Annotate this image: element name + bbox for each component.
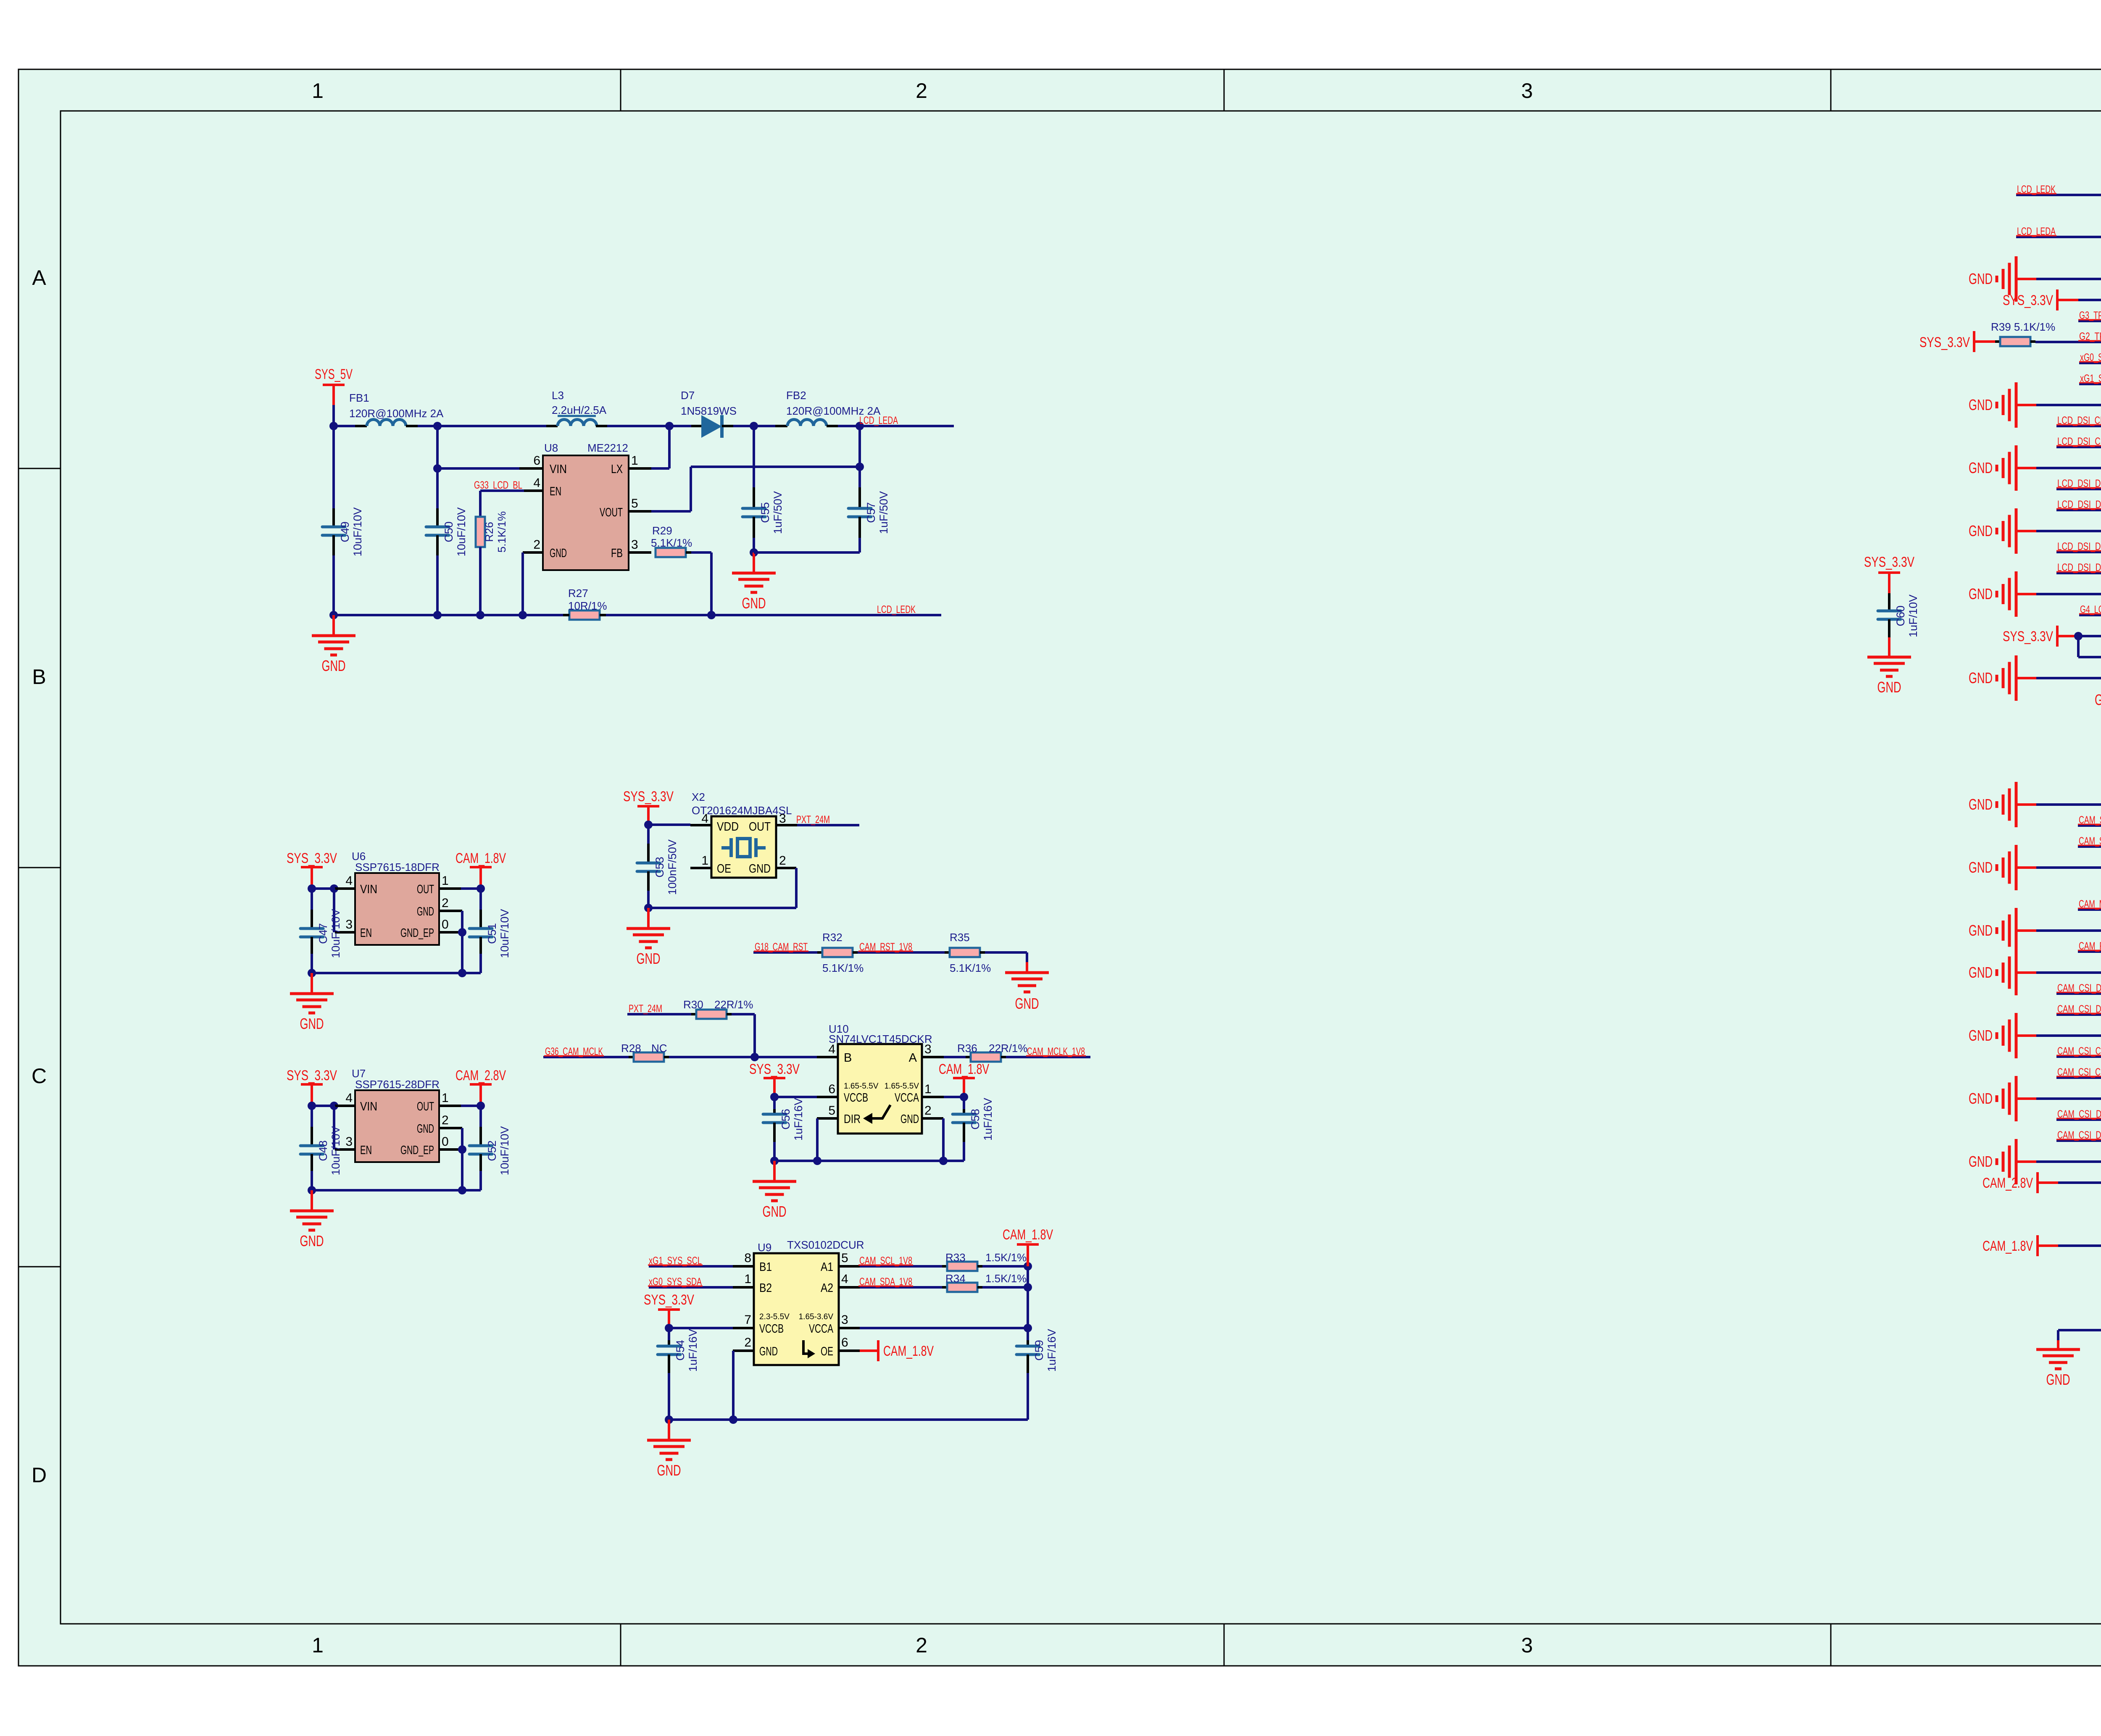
svg-text:GND: GND <box>1969 859 1993 876</box>
svg-text:3: 3 <box>345 918 353 931</box>
svg-text:3: 3 <box>841 1313 848 1327</box>
svg-text:C47: C47 <box>317 923 329 944</box>
svg-text:10uF/10V: 10uF/10V <box>498 1126 511 1175</box>
svg-text:3: 3 <box>1521 79 1533 103</box>
wire <box>669 1418 1028 1421</box>
capacitor C51 <box>469 889 511 973</box>
svg-text:2: 2 <box>779 854 786 868</box>
svg-text:VCCB: VCCB <box>759 1322 784 1336</box>
ground <box>647 1420 691 1479</box>
junction <box>644 821 653 829</box>
svg-text:1: 1 <box>924 1082 932 1096</box>
inductor L3 <box>552 389 607 426</box>
svg-text:OE: OE <box>717 862 731 876</box>
svg-text:10R/1%: 10R/1% <box>568 600 607 612</box>
wire <box>332 405 335 426</box>
svg-text:R39 5.1K/1%: R39 5.1K/1% <box>1991 321 2055 333</box>
svg-text:1.65-3.6V: 1.65-3.6V <box>799 1313 834 1321</box>
wire <box>437 425 558 427</box>
net CAM_SCL_1V8 <box>2078 814 2101 826</box>
resistor R29 <box>651 524 692 557</box>
wire <box>669 1327 733 1329</box>
pin stub <box>690 867 711 869</box>
junction <box>519 611 527 619</box>
wire <box>774 1160 964 1162</box>
svg-text:SN74LVC1T45DCKR: SN74LVC1T45DCKR <box>829 1033 932 1045</box>
capacitor C47 <box>300 889 342 973</box>
svg-text:U9: U9 <box>758 1241 771 1254</box>
svg-text:EN: EN <box>360 926 372 940</box>
net xG1_SYS_SCL <box>2079 373 2101 384</box>
ground <box>627 908 670 967</box>
svg-text:1.5K/1%: 1.5K/1% <box>985 1251 1027 1264</box>
svg-text:SYS_3.3V: SYS_3.3V <box>623 789 674 805</box>
capacitor C52 <box>469 1106 511 1190</box>
svg-text:SSP7615-28DFR: SSP7615-28DFR <box>355 1078 440 1091</box>
ferrite bead FB2 <box>786 389 881 426</box>
junction <box>1024 1283 1032 1291</box>
wire <box>817 1118 838 1161</box>
net xG0_SYS_SDA <box>648 1276 733 1288</box>
power flag CAM_1.8V <box>1983 1235 2101 1256</box>
ground <box>1969 571 2101 617</box>
wire <box>334 425 367 427</box>
net CAM_CSI_CK_N <box>2056 1066 2101 1078</box>
wire <box>439 1148 462 1151</box>
svg-text:4: 4 <box>533 476 540 490</box>
svg-text:10uF/10V: 10uF/10V <box>351 507 364 556</box>
svg-text:1.65-5.5V: 1.65-5.5V <box>844 1082 879 1091</box>
ground <box>290 1190 334 1249</box>
junction <box>750 1053 759 1061</box>
svg-text:A2: A2 <box>821 1281 833 1295</box>
wire <box>669 425 701 427</box>
svg-text:PXT_24M: PXT_24M <box>629 1003 662 1015</box>
net CAM_SDA_1V8 <box>2078 835 2101 847</box>
net LCD_LEDA <box>2016 226 2101 237</box>
svg-text:SYS_3.3V: SYS_3.3V <box>287 850 337 866</box>
net xG0_SYS_SDA <box>2079 352 2101 363</box>
ground <box>312 615 355 674</box>
svg-text:VIN: VIN <box>360 1100 377 1113</box>
junction <box>770 1093 779 1101</box>
junction <box>433 464 442 473</box>
svg-text:B: B <box>844 1051 852 1065</box>
svg-text:R36: R36 <box>957 1042 977 1055</box>
net CAM_CSI_D0_N <box>2056 1129 2101 1141</box>
svg-text:C49: C49 <box>339 521 351 542</box>
power flag SYS_5V <box>315 366 353 405</box>
wire <box>521 552 524 615</box>
resistor R30 <box>683 998 753 1019</box>
svg-text:VIN: VIN <box>550 463 567 476</box>
svg-text:8: 8 <box>744 1251 751 1265</box>
capacitor C53 <box>637 825 679 908</box>
svg-text:A: A <box>32 266 46 289</box>
svg-text:OE: OE <box>821 1345 833 1358</box>
svg-text:VCCB: VCCB <box>844 1091 868 1105</box>
junction <box>2074 632 2083 640</box>
svg-text:2: 2 <box>916 79 927 103</box>
ground <box>1969 445 2101 491</box>
svg-text:R30: R30 <box>683 998 703 1011</box>
regulator U6 <box>345 850 448 945</box>
junction <box>308 884 338 893</box>
net G2_TP_INT <box>2035 331 2101 342</box>
net LCD_DSI_D0_P <box>2056 562 2101 573</box>
svg-text:GND: GND <box>300 1015 324 1032</box>
capacitor C48 <box>300 1106 342 1190</box>
junction <box>665 422 674 430</box>
ground <box>1969 950 2101 995</box>
svg-text:22R/1%: 22R/1% <box>989 1042 1028 1055</box>
svg-text:GND_EP: GND_EP <box>400 926 434 940</box>
net CAM_CSI_CK_P <box>2056 1045 2101 1057</box>
svg-text:R35: R35 <box>950 931 970 944</box>
ground <box>1969 655 2101 701</box>
svg-text:1uF/16V: 1uF/16V <box>1045 1329 1058 1372</box>
ground <box>2095 677 2101 723</box>
svg-text:5.1K/1%: 5.1K/1% <box>495 511 508 552</box>
svg-text:3: 3 <box>1521 1633 1533 1657</box>
wire <box>461 932 463 973</box>
svg-text:4: 4 <box>828 1042 835 1056</box>
wire <box>406 425 437 427</box>
level shifter U9 <box>744 1239 864 1365</box>
ground <box>1969 256 2101 302</box>
wire <box>596 425 669 427</box>
svg-text:GND: GND <box>2095 691 2101 708</box>
resistor R33 <box>942 1251 1027 1271</box>
wire <box>774 1096 838 1098</box>
svg-text:R32: R32 <box>822 931 843 944</box>
svg-text:1.65-5.5V: 1.65-5.5V <box>885 1082 919 1091</box>
svg-text:EN: EN <box>550 485 561 498</box>
wire <box>732 1351 735 1420</box>
wire <box>686 552 711 615</box>
capacitor C49 <box>322 426 364 615</box>
power flag SYS_3.3V <box>2003 626 2101 647</box>
svg-text:D: D <box>32 1463 47 1487</box>
net LCD_LEDK <box>2016 184 2101 195</box>
svg-text:6: 6 <box>841 1336 848 1349</box>
power flag CAM_1.8V <box>455 850 506 889</box>
svg-text:G33_LCD_BL: G33_LCD_BL <box>474 479 522 491</box>
svg-text:GND: GND <box>637 950 661 967</box>
svg-text:C60: C60 <box>1894 605 1907 626</box>
svg-text:1.5K/1%: 1.5K/1% <box>985 1272 1027 1285</box>
junction <box>960 1093 968 1101</box>
resistor R34 <box>942 1272 1027 1292</box>
pin stubs U8 <box>523 468 651 552</box>
svg-text:GND: GND <box>417 1122 434 1136</box>
svg-text:3: 3 <box>924 1042 932 1056</box>
svg-text:C53: C53 <box>653 857 666 878</box>
svg-text:GND: GND <box>1969 459 1993 476</box>
svg-text:SYS_3.3V: SYS_3.3V <box>2003 292 2053 308</box>
wire <box>985 952 1027 973</box>
svg-text:SSP7615-18DFR: SSP7615-18DFR <box>355 861 440 873</box>
power flag CAM_2.8V <box>455 1068 506 1106</box>
svg-text:0: 0 <box>442 1135 449 1149</box>
svg-text:5: 5 <box>631 497 638 510</box>
svg-text:GND: GND <box>749 862 771 876</box>
wire <box>922 1118 943 1161</box>
crystal oscillator X2 <box>692 791 792 878</box>
svg-text:L3: L3 <box>552 389 564 402</box>
ground <box>1969 908 2101 953</box>
wire <box>2058 1330 2101 1349</box>
svg-text:1: 1 <box>701 854 708 868</box>
ground <box>1969 845 2101 890</box>
net LCD_DSI_D0_N <box>2056 541 2101 552</box>
power flag SYS_3.3V <box>1864 554 1914 593</box>
svg-text:GND: GND <box>1877 679 1901 696</box>
svg-text:B2: B2 <box>759 1281 772 1295</box>
svg-text:GND: GND <box>322 657 346 674</box>
svg-text:1: 1 <box>442 1091 449 1105</box>
svg-text:GND: GND <box>1969 1090 1993 1107</box>
net CAM_CSI_D0_P <box>2056 1108 2101 1120</box>
svg-text:B1: B1 <box>759 1260 772 1274</box>
svg-text:2: 2 <box>916 1633 927 1657</box>
svg-text:10uF/10V: 10uF/10V <box>498 909 511 958</box>
svg-text:SYS_3.3V: SYS_3.3V <box>2003 629 2053 644</box>
regulator U8 <box>533 442 638 570</box>
svg-text:FB: FB <box>611 547 623 560</box>
svg-text:OUT: OUT <box>417 883 434 896</box>
svg-text:5: 5 <box>828 1104 835 1118</box>
wire <box>754 551 860 554</box>
svg-text:5.1K/1%: 5.1K/1% <box>950 962 991 974</box>
net G36_CAM_MCLK <box>543 1046 629 1057</box>
svg-text:VDD: VDD <box>717 820 739 834</box>
wire <box>312 972 481 974</box>
svg-text:3: 3 <box>345 1135 353 1149</box>
svg-text:GND: GND <box>1969 585 1993 602</box>
junction <box>477 1102 485 1110</box>
junction <box>770 1157 948 1165</box>
svg-text:1uF/16V: 1uF/16V <box>792 1098 805 1141</box>
svg-text:VCCA: VCCA <box>895 1091 919 1105</box>
net PXT_24M <box>627 1003 691 1015</box>
resistor R39 <box>1991 321 2055 346</box>
svg-text:1: 1 <box>312 79 324 103</box>
wire <box>2078 636 2101 657</box>
svg-text:1uF/16V: 1uF/16V <box>982 1098 994 1141</box>
ground <box>1867 657 1911 696</box>
svg-text:D7: D7 <box>681 389 695 402</box>
svg-text:EN: EN <box>360 1144 372 1157</box>
ground <box>1969 1139 2101 1184</box>
capacitor C55 <box>742 426 784 552</box>
net LCD_DSI_D1_N <box>2056 478 2101 489</box>
net LCD_DSI_CK_P <box>2056 436 2101 447</box>
svg-text:X2: X2 <box>692 791 705 803</box>
junction <box>308 1186 466 1194</box>
svg-text:2.2uH/2.5A: 2.2uH/2.5A <box>552 404 607 416</box>
svg-text:NC: NC <box>651 1042 667 1055</box>
svg-text:2: 2 <box>442 1113 449 1127</box>
junction <box>308 1102 338 1110</box>
svg-text:GND: GND <box>1969 1153 1993 1170</box>
svg-text:1: 1 <box>312 1633 324 1657</box>
svg-text:GND: GND <box>1969 669 1993 687</box>
svg-text:7: 7 <box>744 1313 751 1327</box>
power flag CAM_1.8V <box>1003 1227 1053 1266</box>
net CAM_RST_1V8 <box>858 941 945 953</box>
net LCD_DSI_D1_P <box>2056 499 2101 510</box>
junction <box>644 904 653 912</box>
svg-text:1: 1 <box>631 454 638 468</box>
ground <box>2036 1349 2080 1388</box>
svg-text:GND: GND <box>1969 922 1993 939</box>
svg-text:1uF/50V: 1uF/50V <box>771 491 784 534</box>
wire <box>982 1265 1028 1268</box>
net CAM_CSI_D1_N <box>2056 1003 2101 1015</box>
svg-text:R27: R27 <box>568 587 588 600</box>
net CAM_SDA_1V8 <box>858 1276 942 1288</box>
svg-text:U8: U8 <box>544 442 558 454</box>
svg-text:6: 6 <box>533 454 540 468</box>
svg-text:LX: LX <box>611 463 623 476</box>
wire <box>439 887 481 890</box>
svg-text:C55: C55 <box>759 502 771 523</box>
resistor R28 <box>621 1042 669 1062</box>
svg-text:4: 4 <box>701 812 708 826</box>
net G3_TP_RST <box>2078 310 2101 321</box>
wire <box>922 1096 964 1098</box>
capacitor C57 <box>848 426 890 552</box>
wire <box>827 425 860 427</box>
wire <box>669 1056 817 1058</box>
junction <box>665 1324 673 1332</box>
net LCD_LEDA <box>859 415 954 426</box>
svg-text:120R@100MHz 2A: 120R@100MHz 2A <box>349 407 444 420</box>
svg-text:4: 4 <box>345 1091 353 1105</box>
wire <box>334 614 563 616</box>
junction <box>707 611 716 619</box>
wire <box>982 1286 1028 1289</box>
ground <box>1969 1013 2101 1058</box>
svg-text:C48: C48 <box>317 1140 329 1161</box>
svg-text:GND: GND <box>550 547 567 560</box>
net G4_LCD_RST <box>2079 604 2101 615</box>
capacitor C60 <box>1878 593 1919 657</box>
wire <box>334 889 355 932</box>
svg-text:1uF/50V: 1uF/50V <box>877 491 890 534</box>
net CAM_MCLK_1V8 <box>2078 898 2101 910</box>
svg-text:2: 2 <box>744 1336 751 1349</box>
svg-text:CAM_1.8V: CAM_1.8V <box>1003 1227 1053 1243</box>
resistor R35 <box>945 931 991 974</box>
wire <box>651 467 860 511</box>
svg-text:GND: GND <box>1969 964 1993 981</box>
level shifter U10 <box>828 1023 932 1134</box>
svg-text:10uF/10V: 10uF/10V <box>329 909 342 958</box>
svg-text:B: B <box>32 665 46 689</box>
svg-text:3: 3 <box>779 812 786 826</box>
regulator U7 <box>345 1067 448 1162</box>
svg-text:A: A <box>909 1051 917 1065</box>
svg-text:1N5819WS: 1N5819WS <box>681 405 737 417</box>
svg-text:PXT_24M: PXT_24M <box>796 814 830 826</box>
svg-text:5.1K/1%: 5.1K/1% <box>651 537 692 549</box>
junction <box>308 969 466 977</box>
svg-text:FB2: FB2 <box>786 389 806 402</box>
junction <box>1024 1324 1032 1332</box>
svg-text:R34: R34 <box>945 1272 966 1285</box>
svg-text:SYS_3.3V: SYS_3.3V <box>287 1068 337 1084</box>
wire <box>722 425 754 427</box>
svg-text:GND: GND <box>1969 522 1993 539</box>
svg-text:OUT: OUT <box>749 820 771 834</box>
svg-text:5: 5 <box>841 1251 848 1265</box>
power flag CAM_2.8V <box>1983 1172 2101 1193</box>
ground <box>1969 1076 2101 1121</box>
wire <box>439 1128 462 1149</box>
net CAM_CSI_D1_P <box>2056 982 2101 994</box>
svg-text:SYS_5V: SYS_5V <box>315 366 353 382</box>
svg-text:22R/1%: 22R/1% <box>714 998 753 1011</box>
junction <box>433 422 442 430</box>
svg-text:ME2212: ME2212 <box>587 442 628 454</box>
wire <box>648 825 711 825</box>
junction <box>458 928 466 936</box>
svg-text:GND: GND <box>1015 995 1039 1012</box>
svg-text:OUT: OUT <box>417 1100 434 1113</box>
power flag CAM_1.8V <box>939 1061 989 1097</box>
svg-text:GND: GND <box>759 1345 778 1358</box>
power flag SYS_3.3V <box>287 850 337 889</box>
wire <box>860 1327 1028 1329</box>
svg-text:CAM_2.8V: CAM_2.8V <box>1983 1175 2033 1191</box>
junction <box>856 463 864 471</box>
capacitor C56 <box>763 1097 805 1161</box>
svg-text:LCD_LEDA: LCD_LEDA <box>859 415 898 426</box>
svg-text:SYS_3.3V: SYS_3.3V <box>644 1292 694 1308</box>
junction <box>1024 1262 1032 1270</box>
svg-text:GND: GND <box>2046 1371 2070 1388</box>
svg-text:C54: C54 <box>674 1340 687 1361</box>
resistor R36 <box>944 1042 1028 1062</box>
ground <box>1969 782 2101 827</box>
svg-text:GND: GND <box>900 1113 919 1126</box>
svg-text:10uF/10V: 10uF/10V <box>329 1126 342 1175</box>
wire <box>312 1189 481 1192</box>
junction <box>458 1145 466 1154</box>
ground <box>1005 973 1049 1012</box>
resistor R27 <box>563 587 607 620</box>
svg-text:GND: GND <box>300 1232 324 1249</box>
svg-text:GND: GND <box>1969 396 1993 413</box>
junction <box>750 422 758 430</box>
svg-text:CAM_1.8V: CAM_1.8V <box>883 1343 934 1359</box>
svg-text:C57: C57 <box>865 502 877 523</box>
capacitor C58 <box>953 1097 994 1161</box>
svg-text:DIR: DIR <box>844 1113 861 1126</box>
svg-text:CAM_1.8V: CAM_1.8V <box>939 1061 989 1077</box>
svg-text:GND: GND <box>742 594 766 612</box>
svg-text:SYS_3.3V: SYS_3.3V <box>1919 334 1970 350</box>
wire <box>776 824 797 826</box>
pin stub <box>817 1056 838 1058</box>
svg-text:1uF/16V: 1uF/16V <box>687 1329 699 1372</box>
svg-text:GND: GND <box>763 1203 787 1220</box>
wire <box>334 1106 355 1149</box>
net CAM_MCLK_1V8 <box>1006 1046 1090 1057</box>
wire <box>648 868 796 908</box>
